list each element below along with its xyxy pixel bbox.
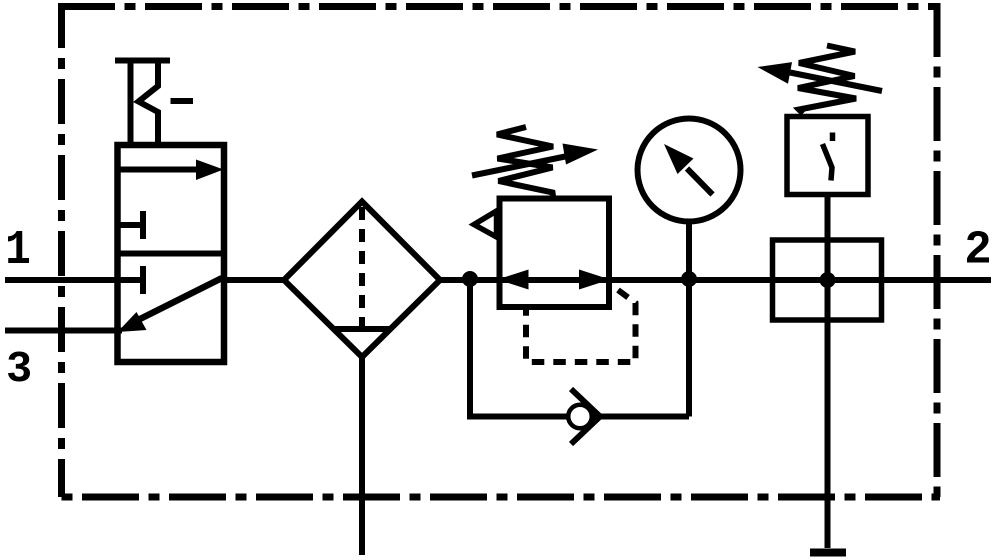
valve manual detent actuator (115, 61, 193, 146)
node: regulator inlet junction (462, 271, 478, 287)
enclosure border top (dash-dot) (58, 3, 940, 10)
filter F1 with water separator (284, 202, 440, 358)
valve position b: blocked port 1 (140, 266, 146, 294)
regulator R1 body (500, 199, 610, 308)
regulator pilot dashed line (526, 290, 636, 362)
outlet valve adjustable spring (798, 46, 856, 114)
exhaust end bar (810, 549, 846, 557)
valve position a: blocked port 3 (118, 211, 144, 239)
regulator adjustable spring (497, 127, 553, 196)
outlet valve internal poppet mark (823, 133, 833, 181)
port 3 label (8, 352, 30, 382)
gauge stem wire (686, 221, 692, 280)
wire filter to regulator and main output line (440, 277, 991, 283)
port 1 label (8, 231, 29, 263)
port 3 wire (5, 328, 122, 334)
regulator flow arrows (498, 270, 611, 290)
regulator adjustment arrow (472, 144, 598, 176)
wire valve outlet to filter (224, 277, 284, 283)
port 1 wire (5, 277, 143, 283)
valve V1 body (3/2 way) (118, 145, 225, 362)
filter drain line (359, 357, 365, 555)
check valve bypass wire (470, 280, 689, 417)
outlet valve vertical line and exhaust wire (825, 197, 831, 548)
enclosure border right (dash-dot) (934, 3, 941, 497)
port 2 label (967, 231, 989, 263)
node: gauge junction (681, 271, 697, 287)
enclosure border bottom (dash-dot) (62, 494, 941, 501)
valve position b: exhaust path 2 to 3 arrow (118, 278, 223, 332)
enclosure border left (dash-dot) (58, 3, 65, 497)
outlet valve adjustment arrow (758, 62, 883, 91)
valve position a: flow arrow 1 to 2 (118, 160, 224, 181)
check valve CV1 (568, 389, 600, 444)
pressure gauge G1 (638, 119, 741, 222)
outlet valve V2 pilot box (787, 117, 868, 195)
node: outlet junction (820, 272, 836, 288)
outlet valve block (773, 240, 882, 320)
regulator relief triangle (474, 211, 497, 237)
